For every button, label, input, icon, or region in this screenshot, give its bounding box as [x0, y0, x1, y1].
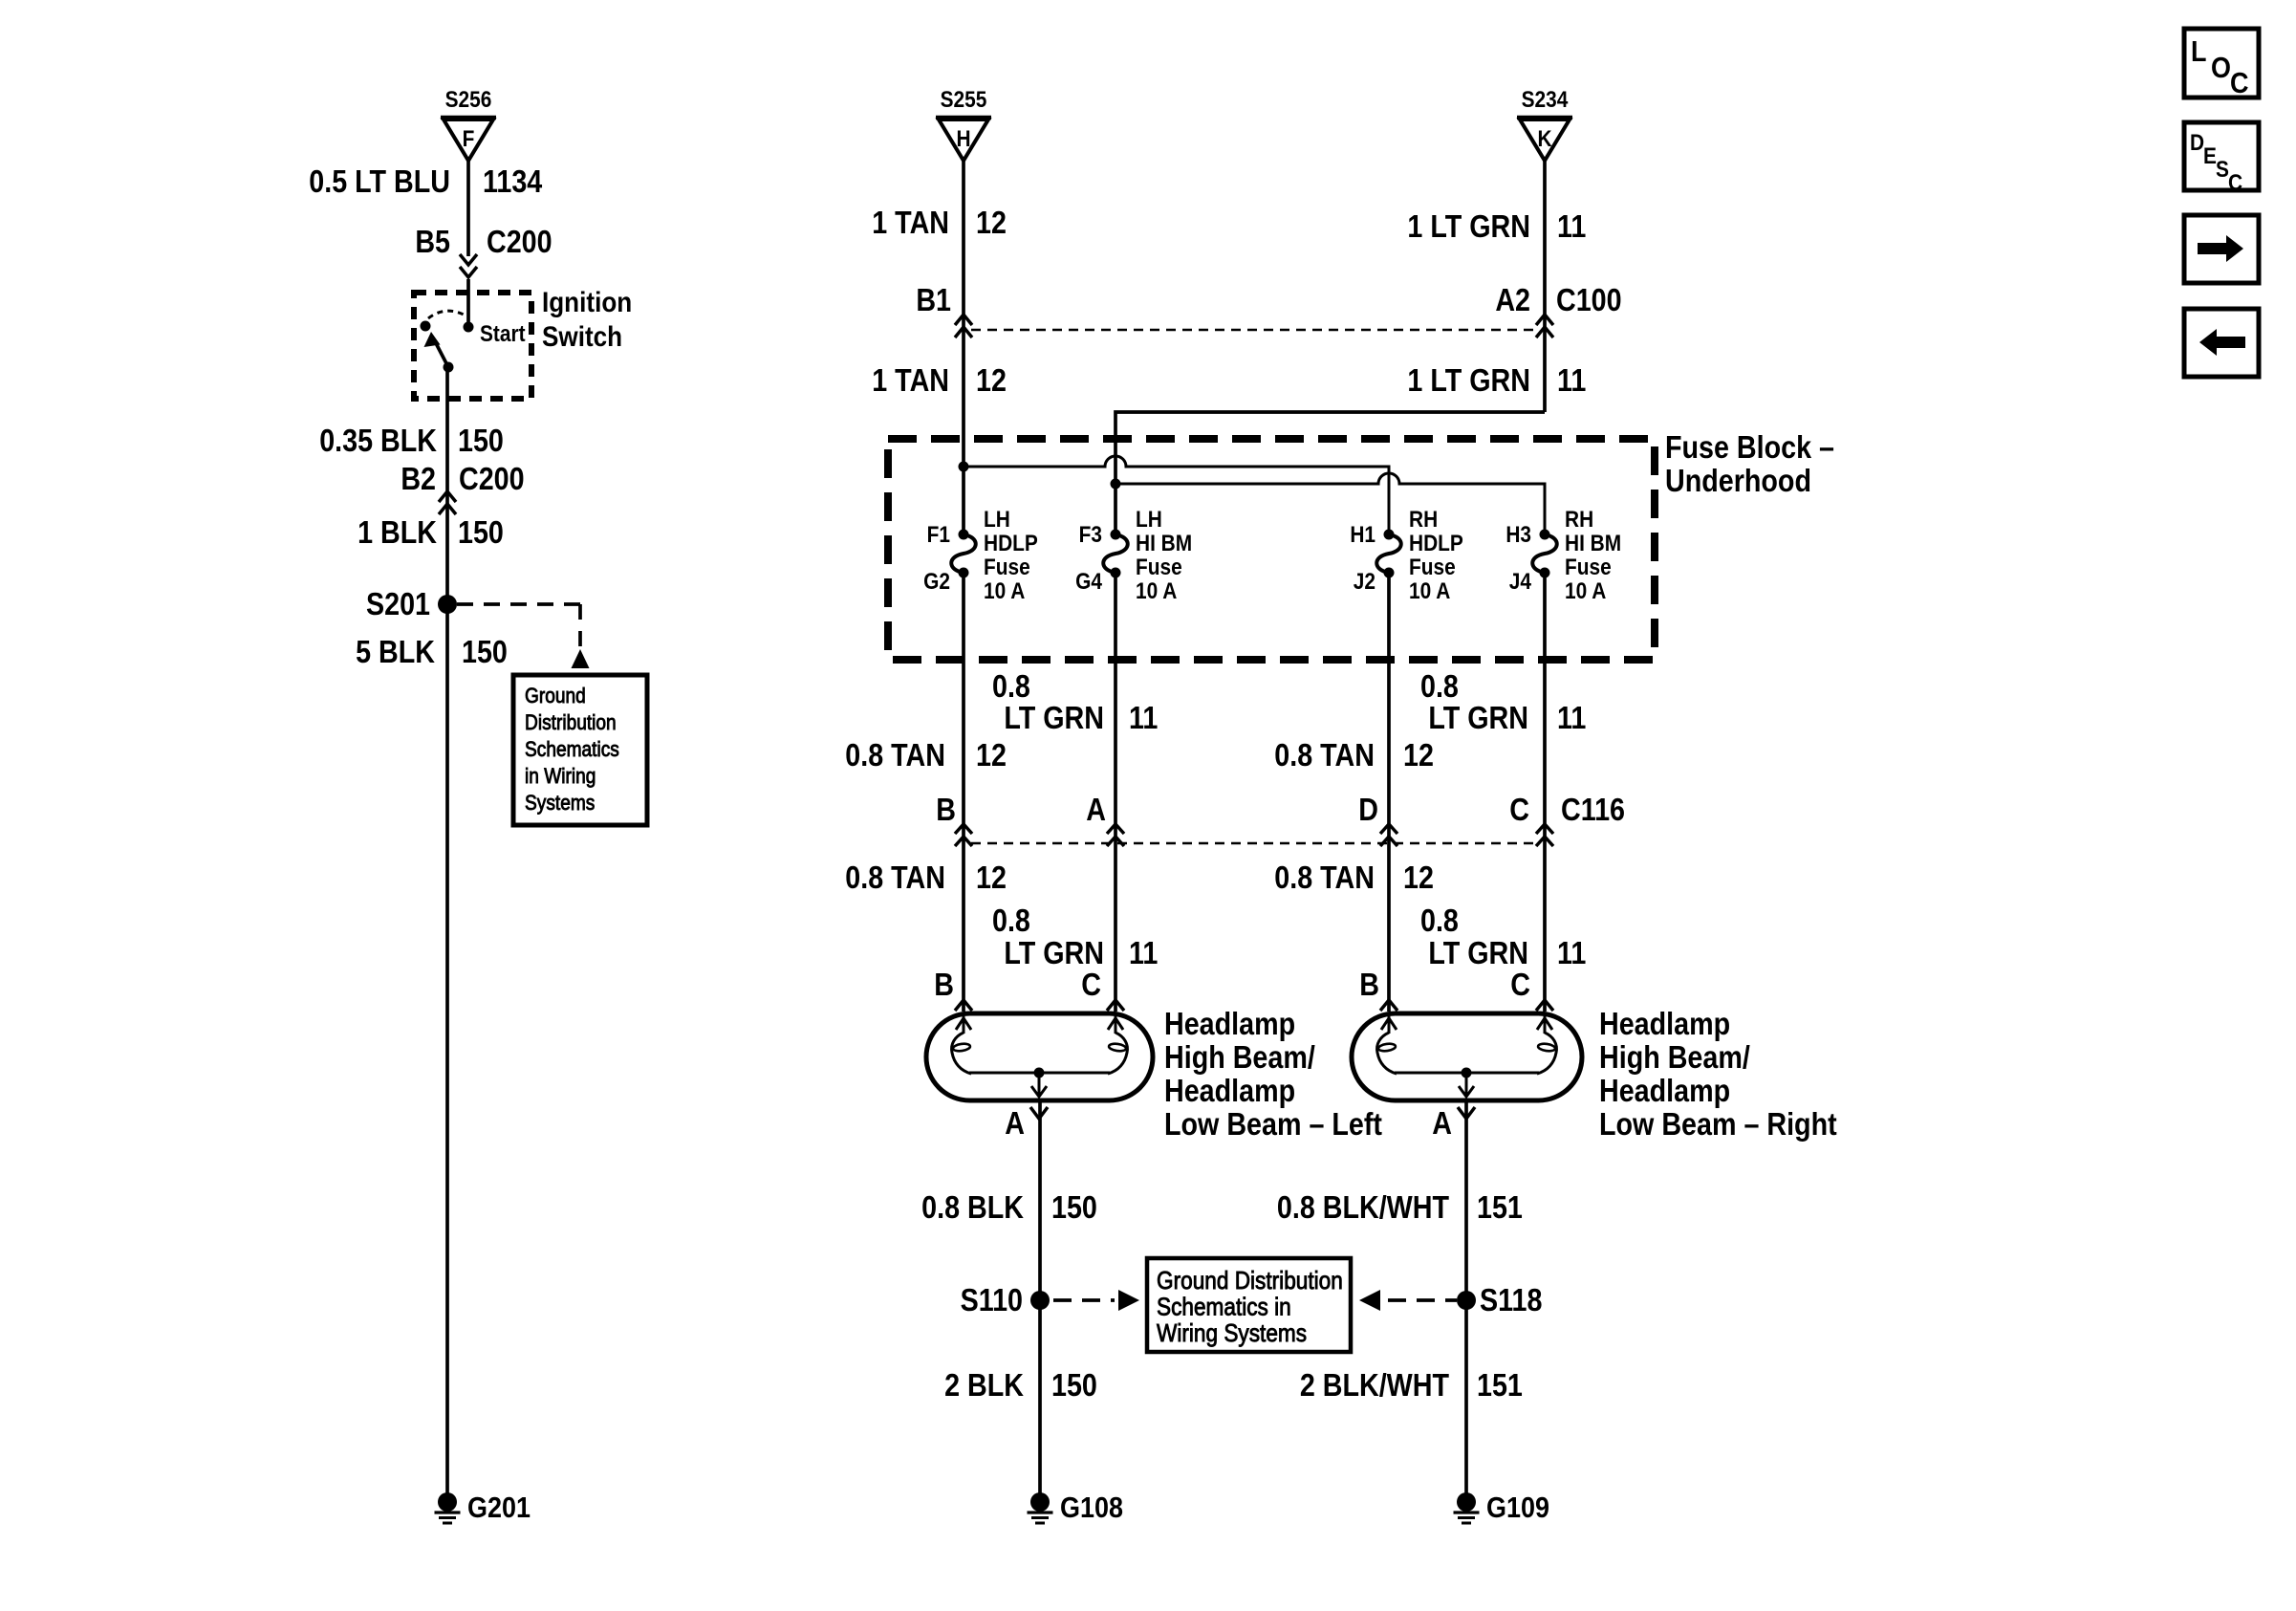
ground distribution reference box left — [513, 675, 647, 825]
nav icon forward arrow — [2184, 215, 2259, 283]
svg-text:0.8 TAN: 0.8 TAN — [845, 737, 945, 773]
svg-text:C: C — [2228, 170, 2242, 196]
nav icon LOC — [2184, 29, 2259, 99]
fuse H1-J2 RH HDLP 10A — [1350, 507, 1463, 604]
wire 2 BLK/WHT 151 — [1300, 1367, 1523, 1403]
svg-text:S234: S234 — [1522, 87, 1569, 113]
nav icon back arrow — [2184, 309, 2259, 377]
svg-text:J4: J4 — [1509, 569, 1532, 595]
svg-text:S201: S201 — [366, 586, 430, 621]
svg-text:12: 12 — [976, 860, 1007, 895]
svg-text:B: B — [1359, 967, 1379, 1002]
svg-text:S118: S118 — [1480, 1282, 1542, 1317]
dashed arrow S118 to reference box — [1359, 1290, 1457, 1311]
svg-text:2 BLK: 2 BLK — [944, 1367, 1025, 1403]
wire 1 TAN 12 lower — [872, 362, 1007, 398]
svg-text:1 TAN: 1 TAN — [872, 205, 949, 240]
svg-text:11: 11 — [1557, 700, 1586, 735]
bus wire from LT GRN feed — [1111, 473, 1546, 534]
wire 0.8 LT GRN 11 to right lamp — [1420, 903, 1586, 970]
svg-text:Ground: Ground — [525, 685, 586, 708]
wire 0.8 BLK 150 — [921, 1100, 1097, 1493]
svg-text:11: 11 — [1557, 935, 1586, 970]
svg-text:D: D — [1358, 792, 1378, 827]
splice S234 — [1517, 87, 1572, 161]
svg-text:LT GRN: LT GRN — [1428, 935, 1528, 970]
connector B1 C100 — [916, 282, 1621, 337]
svg-text:12: 12 — [976, 362, 1007, 398]
svg-text:12: 12 — [976, 205, 1007, 240]
svg-text:S: S — [2216, 157, 2229, 183]
svg-text:F1: F1 — [927, 522, 950, 548]
svg-text:Fuse Block –: Fuse Block – — [1665, 429, 1834, 465]
svg-text:A: A — [1086, 792, 1106, 827]
svg-text:12: 12 — [976, 737, 1007, 773]
svg-text:0.8 BLK/WHT: 0.8 BLK/WHT — [1277, 1189, 1449, 1225]
wire 1 LT GRN 11 upper — [1407, 161, 1586, 412]
svg-text:Headlamp: Headlamp — [1599, 1073, 1730, 1108]
wire 0.8 BLK/WHT 151 — [1277, 1100, 1523, 1493]
wire 0.8 TAN 12 from RH HDLP fuse — [1274, 573, 1434, 1012]
svg-text:LH: LH — [984, 507, 1010, 533]
svg-text:LT GRN: LT GRN — [1004, 700, 1104, 735]
svg-text:Schematics in: Schematics in — [1157, 1294, 1291, 1321]
bus wire from TAN feed — [959, 456, 1390, 534]
headlamp high/low beam right — [1352, 967, 1837, 1142]
dashed arrow S110 to reference box — [1053, 1290, 1139, 1311]
wire 0.8 TAN 12 to right lamp — [1274, 860, 1434, 895]
svg-text:LT GRN: LT GRN — [1428, 700, 1528, 735]
svg-text:F: F — [463, 126, 475, 152]
svg-text:1134: 1134 — [483, 163, 543, 199]
svg-text:G109: G109 — [1486, 1491, 1549, 1524]
connector B2 C200 — [401, 461, 524, 514]
svg-text:HI BM: HI BM — [1136, 531, 1192, 556]
svg-text:Switch: Switch — [542, 320, 622, 352]
fuse F1-G2 LH HDLP 10A — [923, 507, 1038, 604]
ground G109 — [1454, 1491, 1549, 1524]
svg-text:Headlamp: Headlamp — [1599, 1006, 1730, 1041]
svg-text:151: 151 — [1477, 1189, 1523, 1225]
svg-text:0.8 TAN: 0.8 TAN — [1274, 860, 1375, 895]
svg-text:0.8: 0.8 — [992, 668, 1030, 704]
svg-text:150: 150 — [458, 423, 504, 458]
svg-text:H: H — [956, 126, 970, 152]
ignition switch — [414, 286, 632, 399]
svg-text:LT GRN: LT GRN — [1004, 935, 1104, 970]
svg-text:C: C — [1510, 967, 1530, 1002]
ground G201 — [435, 1491, 531, 1524]
splice S256 — [441, 87, 496, 161]
splice S201 — [366, 586, 457, 621]
svg-text:Fuse: Fuse — [1136, 555, 1182, 580]
svg-text:C200: C200 — [459, 461, 525, 496]
svg-text:S256: S256 — [445, 87, 492, 113]
svg-text:0.35 BLK: 0.35 BLK — [319, 423, 437, 458]
svg-text:C: C — [1081, 967, 1101, 1002]
svg-text:F3: F3 — [1079, 522, 1102, 548]
svg-text:150: 150 — [458, 514, 504, 550]
svg-text:C100: C100 — [1556, 282, 1622, 317]
svg-text:J2: J2 — [1354, 569, 1375, 595]
svg-text:150: 150 — [1051, 1367, 1097, 1403]
svg-text:151: 151 — [1477, 1367, 1523, 1403]
svg-text:Low Beam – Right: Low Beam – Right — [1599, 1106, 1837, 1142]
svg-text:High Beam/: High Beam/ — [1599, 1039, 1750, 1075]
svg-text:Ignition: Ignition — [542, 286, 632, 317]
svg-text:RH: RH — [1409, 507, 1438, 533]
svg-text:150: 150 — [1051, 1189, 1097, 1225]
svg-text:1 TAN: 1 TAN — [872, 362, 949, 398]
svg-text:D: D — [2190, 130, 2204, 156]
svg-text:B: B — [934, 967, 954, 1002]
svg-text:HDLP: HDLP — [1409, 531, 1463, 556]
splice S255 — [936, 87, 991, 161]
svg-text:10 A: 10 A — [1409, 578, 1450, 604]
svg-text:Fuse: Fuse — [1565, 555, 1612, 580]
svg-text:Underhood: Underhood — [1665, 463, 1811, 498]
svg-text:Fuse: Fuse — [1409, 555, 1456, 580]
svg-text:C: C — [1509, 792, 1529, 827]
svg-text:Start: Start — [480, 321, 526, 347]
svg-text:Ground Distribution: Ground Distribution — [1157, 1268, 1343, 1295]
fuse H3-J4 RH HI BM 10A — [1505, 507, 1621, 604]
wire 1 TAN 12 upper — [872, 161, 1007, 534]
splice S118 — [1457, 1282, 1542, 1317]
svg-text:S110: S110 — [961, 1282, 1023, 1317]
wire 2 BLK 150 — [944, 1367, 1097, 1403]
svg-text:Schematics: Schematics — [525, 738, 619, 762]
wire 0.8 LT GRN 11 from LH HI BM fuse — [992, 573, 1158, 1012]
svg-text:11: 11 — [1557, 362, 1586, 398]
svg-text:Headlamp: Headlamp — [1164, 1006, 1295, 1041]
svg-text:150: 150 — [462, 634, 508, 669]
svg-text:K: K — [1537, 126, 1552, 152]
wire 0.8 LT GRN 11 to left lamp — [992, 903, 1158, 970]
wire 1 BLK 150 — [357, 514, 504, 550]
connector C116 — [936, 792, 1625, 846]
svg-text:0.8 BLK: 0.8 BLK — [921, 1189, 1024, 1225]
svg-text:11: 11 — [1129, 935, 1158, 970]
svg-text:1 BLK: 1 BLK — [357, 514, 438, 550]
svg-text:Wiring Systems: Wiring Systems — [1157, 1320, 1307, 1348]
svg-text:B: B — [936, 792, 956, 827]
svg-text:Fuse: Fuse — [984, 555, 1030, 580]
fuse block underhood box — [888, 429, 1834, 660]
svg-text:HDLP: HDLP — [984, 531, 1038, 556]
wire 1 LT GRN 11 lower, routed to fuse block — [1116, 362, 1586, 534]
svg-text:0.8 TAN: 0.8 TAN — [1274, 737, 1375, 773]
svg-text:E: E — [2203, 143, 2217, 169]
svg-text:11: 11 — [1557, 208, 1586, 244]
svg-text:Distribution: Distribution — [525, 711, 617, 735]
svg-text:2 BLK/WHT: 2 BLK/WHT — [1300, 1367, 1449, 1403]
wire 0.35 BLK 150 — [319, 367, 504, 604]
svg-text:Low Beam – Left: Low Beam – Left — [1164, 1106, 1382, 1142]
svg-text:5 BLK: 5 BLK — [356, 634, 436, 669]
fuse F3-G4 LH HI BM 10A — [1075, 507, 1192, 604]
svg-text:B2: B2 — [401, 461, 436, 496]
svg-text:11: 11 — [1129, 700, 1158, 735]
svg-text:Headlamp: Headlamp — [1164, 1073, 1295, 1108]
ground distribution reference box center — [1147, 1258, 1351, 1352]
svg-text:1 LT GRN: 1 LT GRN — [1407, 208, 1530, 244]
svg-text:B1: B1 — [916, 282, 951, 317]
svg-text:B5: B5 — [415, 224, 450, 259]
svg-text:1 LT GRN: 1 LT GRN — [1407, 362, 1530, 398]
svg-text:10 A: 10 A — [984, 578, 1025, 604]
svg-text:HI BM: HI BM — [1565, 531, 1621, 556]
svg-text:H3: H3 — [1505, 522, 1531, 548]
dashed reference from S201 — [457, 604, 590, 668]
svg-text:C200: C200 — [487, 224, 552, 259]
wire 0.8 TAN 12 from LH HDLP fuse — [845, 573, 1007, 1012]
svg-text:10 A: 10 A — [1565, 578, 1606, 604]
svg-text:Systems: Systems — [525, 792, 595, 816]
svg-text:0.8: 0.8 — [992, 903, 1030, 938]
svg-text:H1: H1 — [1350, 522, 1375, 548]
svg-text:10 A: 10 A — [1136, 578, 1177, 604]
svg-text:G201: G201 — [467, 1491, 531, 1524]
svg-text:L: L — [2191, 35, 2206, 68]
wire 5 BLK 150 — [356, 604, 508, 1493]
svg-text:LH: LH — [1136, 507, 1162, 533]
svg-text:G2: G2 — [923, 569, 950, 595]
svg-text:0.8 TAN: 0.8 TAN — [845, 860, 945, 895]
svg-text:High Beam/: High Beam/ — [1164, 1039, 1315, 1075]
svg-text:G4: G4 — [1075, 569, 1102, 595]
splice S110 — [961, 1282, 1050, 1317]
svg-text:RH: RH — [1565, 507, 1593, 533]
svg-text:A: A — [1432, 1105, 1452, 1141]
svg-text:12: 12 — [1403, 737, 1434, 773]
svg-text:in Wiring: in Wiring — [525, 765, 596, 789]
wire 0.8 TAN 12 to left lamp — [845, 860, 1007, 895]
svg-text:A: A — [1005, 1105, 1025, 1141]
headlamp high/low beam left — [926, 967, 1382, 1142]
ground G108 — [1028, 1491, 1123, 1524]
connector B5 C200 — [415, 224, 552, 277]
svg-text:C116: C116 — [1561, 792, 1625, 827]
svg-text:0.5 LT BLU: 0.5 LT BLU — [309, 163, 450, 199]
wire 0.8 LT GRN 11 from RH HI BM fuse — [1420, 573, 1586, 1012]
wire 0.5 LT BLU 1134 — [309, 161, 543, 256]
svg-text:O: O — [2211, 52, 2231, 84]
svg-text:12: 12 — [1403, 860, 1434, 895]
wire into ignition switch — [466, 279, 470, 327]
svg-text:A2: A2 — [1495, 282, 1530, 317]
svg-text:0.8: 0.8 — [1420, 668, 1459, 704]
svg-text:C: C — [2230, 67, 2248, 99]
svg-text:G108: G108 — [1060, 1491, 1123, 1524]
svg-text:0.8: 0.8 — [1420, 903, 1459, 938]
svg-text:S255: S255 — [941, 87, 987, 113]
nav icon DESC — [2184, 122, 2259, 195]
